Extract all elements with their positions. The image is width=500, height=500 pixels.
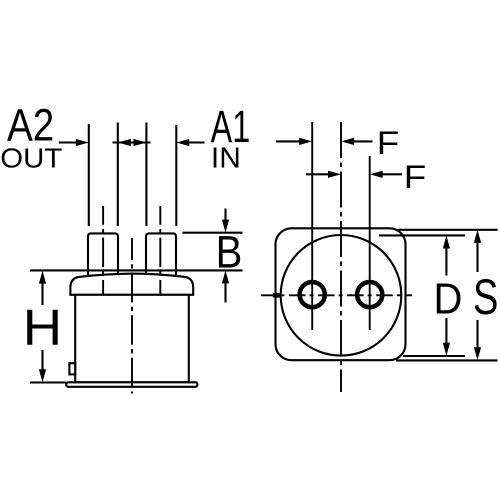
- H bottom extension line: [30, 381, 66, 383]
- svg-text:S: S: [473, 270, 498, 325]
- dimension B top extension line: [183, 232, 243, 234]
- terminal eyelet left: [300, 282, 325, 307]
- can circle (top view): [281, 235, 402, 356]
- dimension F upper left tail: [276, 140, 301, 142]
- dimension A1 line: [188, 141, 205, 143]
- dimension A2 line: [59, 141, 77, 143]
- dimension S upper tail: [476, 242, 478, 273]
- dimension S lower tail: [476, 320, 478, 349]
- label S: [473, 270, 498, 325]
- svg-text:H: H: [23, 300, 62, 357]
- dimension F upper right tail: [353, 140, 373, 142]
- lead extension line 2 (A2 right edge): [117, 123, 119, 227]
- dimension D down arrowhead: [443, 343, 450, 356]
- dimension B down arrow tail: [224, 209, 226, 222]
- lead extension line 4 (A1 right edge): [175, 125, 177, 226]
- capacitor cap (lid): [70, 274, 193, 295]
- dimension B down arrowhead: [222, 220, 229, 233]
- label B: [216, 227, 243, 278]
- dimension A2 arrowhead: [76, 139, 89, 146]
- svg-text:OUT: OUT: [0, 143, 62, 174]
- dimension B up arrowhead: [222, 270, 229, 283]
- dimension F lower left arrowhead: [370, 171, 383, 178]
- capacitor body: [75, 295, 189, 383]
- label D: [434, 274, 463, 323]
- svg-text:B: B: [216, 227, 243, 278]
- svg-text:F: F: [377, 126, 399, 161]
- label F upper: [377, 126, 399, 161]
- dimension D up arrowhead: [443, 236, 450, 249]
- top view vertical centerline: [340, 122, 342, 392]
- lead A2 centerline: [102, 206, 104, 300]
- dimension S up arrowhead: [474, 230, 481, 243]
- terminal left centerline/extension: [311, 122, 313, 330]
- label A2: [7, 100, 54, 150]
- dimension F lower right arrowhead: [328, 171, 341, 178]
- dimension H down arrowhead: [39, 369, 46, 382]
- dimension S down arrowhead: [474, 347, 481, 360]
- dimension F lower right tail: [381, 173, 402, 175]
- svg-text:IN: IN: [211, 143, 241, 174]
- dimension A1 arrowhead: [176, 139, 189, 146]
- dimension F lower left tail: [306, 173, 330, 175]
- dimension D lower tail: [445, 318, 447, 344]
- label H: [23, 300, 62, 357]
- dimension S top extension line: [397, 229, 498, 231]
- svg-text:D: D: [434, 274, 463, 323]
- dimension D upper tail: [445, 247, 447, 276]
- dimension D top extension line: [379, 234, 465, 236]
- label IN: [211, 143, 241, 174]
- dimension H up arrowhead: [39, 271, 46, 284]
- center gap right arrowhead: [133, 139, 146, 146]
- label OUT: [0, 143, 62, 174]
- dimension B up arrow tail: [224, 282, 226, 303]
- center gap dimension line: [113, 141, 151, 143]
- label F lower: [404, 160, 426, 195]
- label A1: [211, 103, 251, 152]
- lead extension line 1 (A2 left edge): [88, 124, 90, 226]
- terminal right centerline/extension: [369, 156, 371, 330]
- mounting flange (side view): [66, 382, 197, 387]
- dimension H down arrow tail: [41, 350, 43, 371]
- center gap left arrowhead: [118, 139, 131, 146]
- centerline dash over flange edge: [273, 293, 280, 297]
- dimension H up arrow tail: [41, 282, 43, 305]
- top view horizontal centerline: [261, 294, 412, 296]
- dimension D bottom extension line: [403, 355, 465, 357]
- terminal eyelet right: [357, 282, 382, 307]
- dimension F upper left arrowhead: [341, 138, 354, 145]
- dimension S bottom extension line: [396, 359, 498, 361]
- terminal bump A2: [88, 233, 118, 278]
- dimension F upper right arrowhead: [299, 138, 312, 145]
- terminal bump A1: [146, 233, 176, 278]
- mounting flange outline (top view): [276, 228, 406, 360]
- H/B shared extension line (cap top): [30, 269, 243, 271]
- svg-text:F: F: [404, 160, 426, 195]
- side view main centerline: [131, 238, 133, 394]
- lead A1 centerline: [159, 206, 161, 300]
- lead extension line 3 (A1 left edge): [145, 123, 147, 227]
- side tab: [69, 363, 75, 374]
